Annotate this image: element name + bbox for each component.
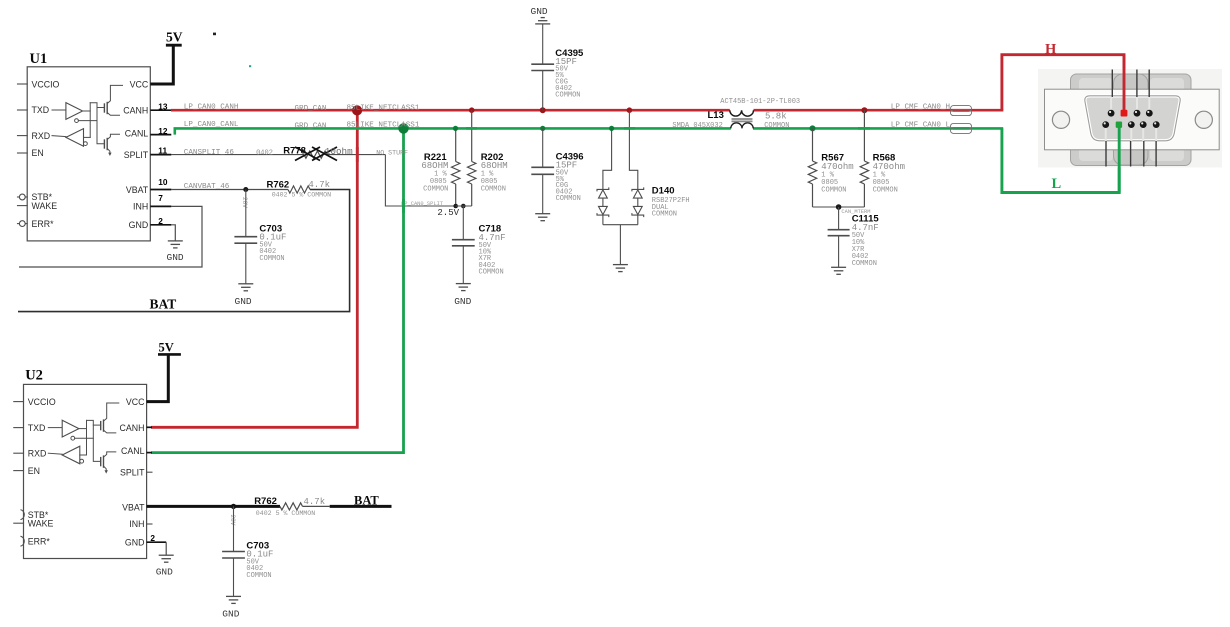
svg-text:COMMON: COMMON [652,211,677,219]
node red junction U2 riser [352,105,362,115]
svg-text:ERR*: ERR* [28,536,51,546]
ground C1115 [831,266,846,268]
svg-text:WAKE: WAKE [28,518,54,528]
wire red into DB9 pin 7 [1123,55,1126,110]
capacitor C718 4.7nF [462,206,464,240]
stray dot marks [213,33,216,36]
ground U2 pin2 [159,554,174,556]
wire green U2 riser overdraw [402,199,405,213]
svg-text:COMMON: COMMON [479,268,504,276]
svg-text:LP_CAN0_SPLIT: LP_CAN0_SPLIT [401,201,444,207]
svg-text:10ohm: 10ohm [325,146,353,157]
wire BAT wrap U1 [18,190,350,312]
svg-text:10: 10 [158,177,168,187]
svg-text:RXD: RXD [28,448,47,458]
svg-text:VCC: VCC [130,79,149,89]
svg-text:VBAT: VBAT [122,502,145,512]
svg-text:LP_CMF_CAN0_L: LP_CMF_CAN0_L [891,121,951,129]
svg-text:2.5V: 2.5V [437,208,459,218]
svg-text:RXD: RXD [32,131,51,141]
svg-text:U1: U1 [30,51,48,67]
node green junction U2 riser [398,123,408,133]
svg-text:470ohm: 470ohm [821,162,853,172]
node green junctions [453,126,458,131]
ground C703 U2 [226,595,241,597]
svg-text:4.7k: 4.7k [308,180,330,190]
diode D140 dual TVS [603,128,612,189]
off-page connector L [951,123,972,129]
stub INH U2 [147,523,153,525]
svg-text:85LIKE_NETCLASS1: 85LIKE_NETCLASS1 [347,104,420,112]
svg-text:28V: 28V [229,515,236,526]
svg-text:CANVBAT_46: CANVBAT_46 [184,183,230,191]
svg-text:5.8k: 5.8k [765,111,787,121]
svg-text:VCC: VCC [126,397,145,407]
svg-text:11: 11 [158,146,167,156]
svg-text:LP_CAN0_CANH: LP_CAN0_CANH [184,104,239,112]
svg-text:EN: EN [32,148,44,158]
svg-text:2: 2 [150,533,155,543]
svg-text:85LIKE_NETCLASS1: 85LIKE_NETCLASS1 [347,122,420,130]
node red junctions [540,107,546,113]
capacitor C1115 4.7nF [838,207,840,230]
off-page connector H [951,106,972,112]
pin stubs U1 with numbers [150,109,171,111]
svg-text:12: 12 [158,126,168,136]
svg-text:VBAT: VBAT [126,185,149,195]
svg-text:NO STUFF: NO STUFF [376,150,408,157]
svg-text:GND: GND [222,609,239,620]
resistor R568 470ohm [863,110,865,161]
svg-text:GND: GND [129,220,149,230]
resistor R202 68OHM [471,110,473,161]
capacitor C703 0.1uF (U1) [245,190,247,237]
resistor R221 68OHM [455,128,457,161]
DB9 pins top row [1108,110,1115,117]
svg-text:GRD_CAN: GRD_CAN [295,123,327,131]
svg-text:L13: L13 [708,110,724,121]
wire green CANL from U2 [151,128,404,452]
svg-text:LP_CMF_CAN0_H: LP_CMF_CAN0_H [891,104,950,112]
svg-text:ERR*: ERR* [32,219,55,229]
op-amp U2 transceiver block [14,368,147,559]
svg-text:VCCIO: VCCIO [32,79,60,89]
wire red CANH bus U1 [171,109,730,112]
svg-text:COMMON: COMMON [821,186,846,194]
svg-text:D140: D140 [652,185,675,196]
node split junctions [453,204,458,209]
stub SPLIT U2 [147,471,153,473]
capacitor C703 0.1uF (U2) [233,506,235,551]
svg-text:U2: U2 [25,368,43,384]
ground C703 U1 [238,283,253,285]
svg-text:H: H [1045,42,1057,58]
svg-text:68OHM: 68OHM [481,161,508,171]
svg-text:CANH: CANH [120,423,145,433]
pin circles STB*/ERR* U1 [19,194,25,200]
svg-text:INH: INH [133,202,148,212]
capacitor C4395 15PF [542,24,544,64]
svg-text:4.7k: 4.7k [304,497,326,507]
svg-text:COMMON: COMMON [246,572,271,580]
svg-text:COMMON: COMMON [259,255,284,263]
svg-text:INH: INH [129,519,144,529]
op-amp U1 transceiver block [18,51,151,241]
svg-text:BAT: BAT [354,494,379,508]
svg-text:28V: 28V [241,197,248,208]
wire GND pin U2 [147,541,167,543]
svg-text:R762: R762 [254,496,277,507]
svg-text:CANH: CANH [123,106,148,116]
svg-text:BAT: BAT [150,297,177,312]
capacitor C4396 15PF [542,128,544,167]
wire green CANL bus U1 [175,128,731,134]
svg-text:0402 5 % COMMON: 0402 5 % COMMON [256,510,315,517]
wire SPLIT net U1 [171,154,304,156]
svg-text:7: 7 [158,193,163,203]
svg-text:0402 5 % COMMON: 0402 5 % COMMON [272,192,331,199]
svg-text:TXD: TXD [28,423,46,433]
svg-text:GND: GND [235,296,252,307]
svg-text:GND: GND [531,6,548,17]
svg-text:13: 13 [158,102,168,112]
svg-text:COMMON: COMMON [481,185,506,193]
svg-text:EN: EN [28,466,40,476]
wire GND pin U1 [171,225,175,241]
node CAN_MTERM junction [813,206,865,208]
svg-text:COMMON: COMMON [873,186,898,194]
svg-text:68OHM: 68OHM [421,161,448,171]
svg-text:COMMON: COMMON [555,91,580,99]
wire INH wrap U1 [19,206,202,267]
svg-text:TXD: TXD [32,105,50,115]
connector DB9 photo [1038,69,1222,168]
wire green from DB9 pin 2 [1118,126,1121,193]
svg-text:5V: 5V [159,340,174,354]
svg-text:WAKE: WAKE [32,201,58,211]
wire VCC U1 to 5V [150,45,173,84]
wire VBAT net U2 (thick) [147,505,280,508]
wire red U2 riser overdraw [356,147,359,162]
wire VBAT net U1 [171,189,288,191]
ground D140 [613,264,628,266]
wire VCC U2 to 5V [147,354,169,401]
wire BAT (U2, thick) [303,505,330,507]
svg-text:CANL: CANL [121,446,145,456]
wire green bus overdraw at crossings [466,127,477,130]
svg-text:LP_CAN0_CANL: LP_CAN0_CANL [184,121,239,129]
svg-text:5V: 5V [166,30,183,45]
svg-text:GND: GND [156,567,173,578]
pin arcs STB*/ERR* U2 [21,510,25,520]
svg-text:GND: GND [454,296,471,307]
ground C4396 [535,213,550,215]
wire red riser to H [1002,55,1124,112]
svg-text:0402: 0402 [256,150,273,158]
svg-text:COMMON: COMMON [764,122,789,130]
svg-text:COMMON: COMMON [423,185,448,193]
svg-text:470ohm: 470ohm [873,162,905,172]
svg-text:CANL: CANL [125,129,149,139]
ground C718 [456,283,471,285]
wire red CANH from U2 [151,110,357,427]
ground U1 pin2 [168,240,183,242]
svg-text:2: 2 [158,216,163,226]
resistor R567 470ohm [812,128,814,161]
svg-text:ACT45B-101-2P-TL003: ACT45B-101-2P-TL003 [720,98,800,106]
svg-text:SMDA 045X032: SMDA 045X032 [672,122,722,130]
svg-text:SPLIT: SPLIT [124,150,149,160]
wire green to L and connector [1002,127,1119,193]
svg-text:L: L [1052,176,1062,192]
svg-text:GRD_CAN: GRD_CAN [295,105,327,113]
svg-text:COMMON: COMMON [556,195,581,203]
svg-text:CANSPLIT_46: CANSPLIT_46 [184,149,235,157]
svg-text:SPLIT: SPLIT [120,467,145,477]
svg-text:COMMON: COMMON [852,260,877,268]
svg-text:R762: R762 [267,179,290,190]
svg-text:GND: GND [125,538,145,548]
svg-text:GND: GND [167,252,184,263]
DB9 pins bottom row [1102,121,1109,128]
svg-text:VCCIO: VCCIO [28,397,56,407]
